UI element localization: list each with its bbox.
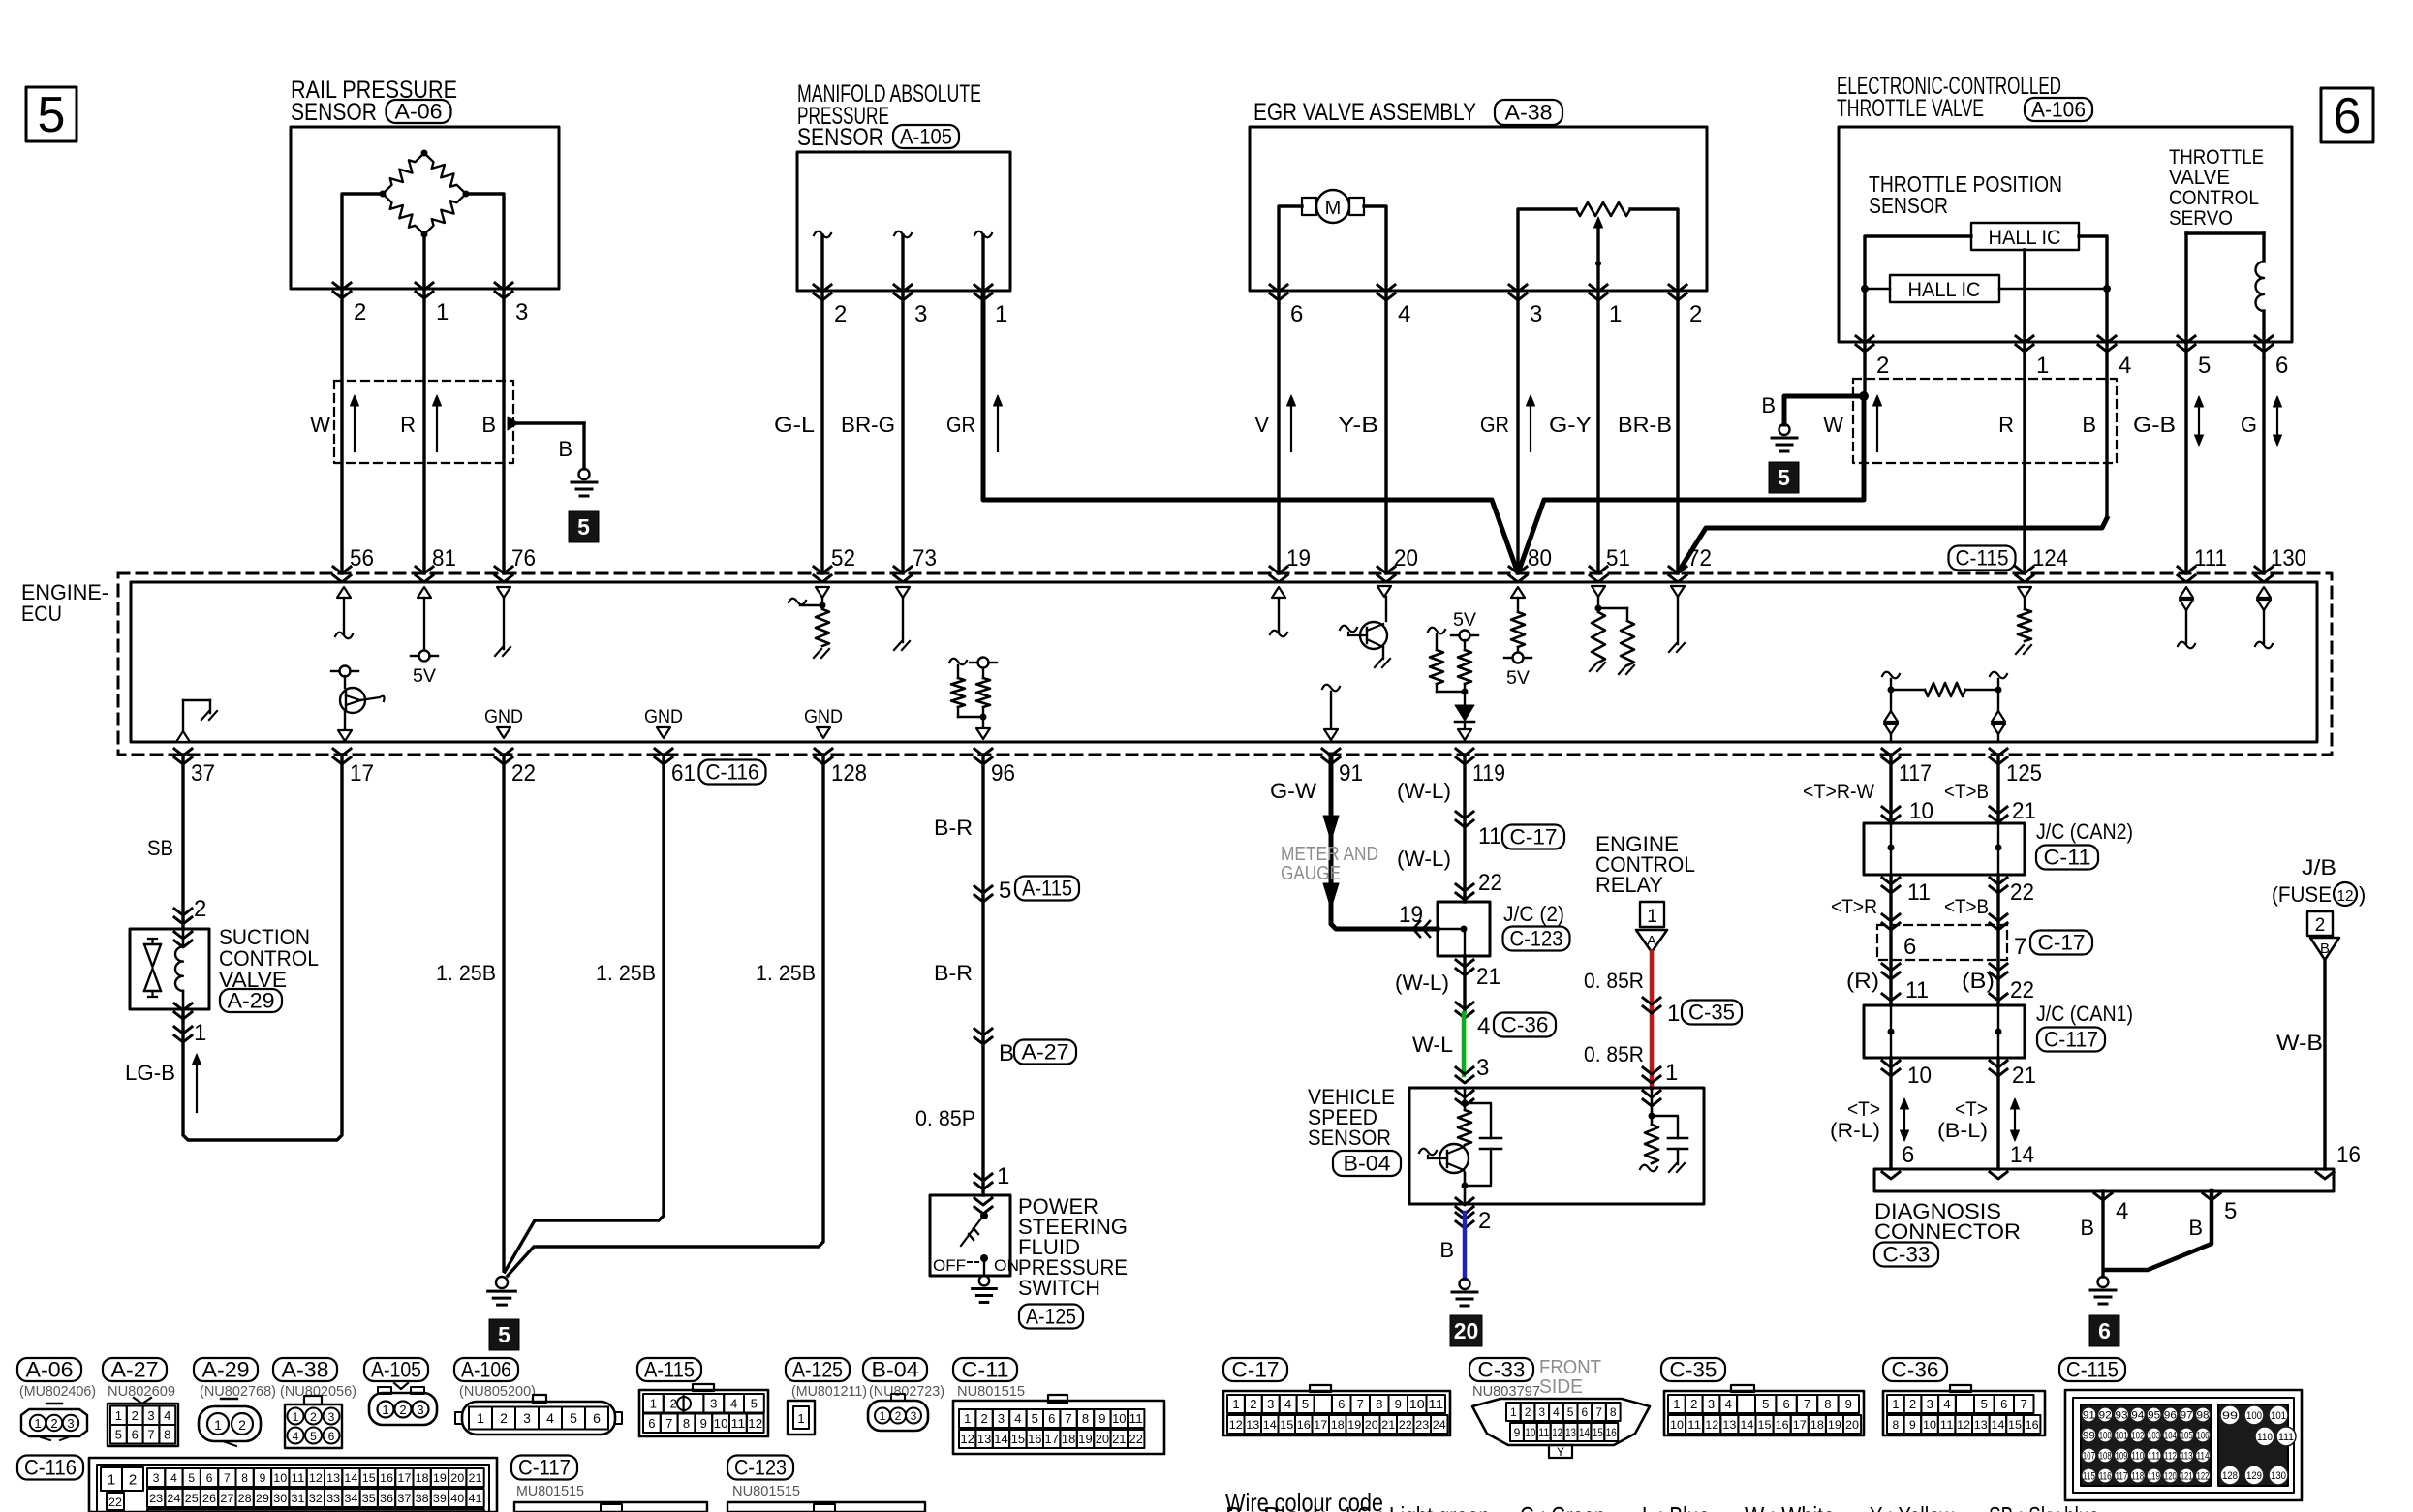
svg-text:15: 15: [1758, 1418, 1772, 1432]
svg-text:11: 11: [1940, 1418, 1954, 1432]
svg-text:125: 125: [2006, 760, 2042, 787]
svg-text:5: 5: [1567, 1405, 1574, 1419]
svg-text:3: 3: [417, 1403, 423, 1417]
intermediate connector dashed box (A-106 harness): [1853, 379, 2117, 463]
svg-text:GR: GR: [1480, 413, 1509, 437]
svg-text:J/B: J/B: [2302, 855, 2336, 879]
svg-text:109: 109: [2116, 1451, 2128, 1463]
svg-text:7: 7: [2014, 934, 2026, 960]
svg-text:81: 81: [432, 545, 456, 571]
svg-text:1: 1: [650, 1396, 657, 1410]
svg-text:5: 5: [577, 514, 590, 540]
ECU top pin crossing at x=2257: [2178, 567, 2195, 573]
ECU top pin crossing at x=2090: [2016, 567, 2033, 573]
svg-text:W-B: W-B: [2276, 1031, 2323, 1055]
svg-text:1: 1: [477, 1410, 484, 1426]
svg-text:(MU801211): (MU801211): [791, 1383, 867, 1400]
ECU top pin crossing at x=438: [416, 567, 433, 573]
ECU top pin crossing at x=353: [333, 567, 351, 573]
svg-text:21: 21: [1476, 964, 1500, 990]
svg-text:20: 20: [1454, 1318, 1479, 1343]
svg-text:95: 95: [2148, 1410, 2160, 1422]
hall IC box 2: [1890, 275, 1999, 302]
wire 91 (G-W) from ECU to meter and J/C(2): [1331, 755, 1438, 929]
svg-text:23: 23: [149, 1492, 163, 1505]
svg-text:121: 121: [2181, 1471, 2193, 1483]
ECU pin 52 pull-down resistor: [816, 587, 829, 598]
pin 3 of A-38: [1509, 285, 1527, 292]
svg-text:B: B: [999, 1040, 1014, 1066]
svg-text:NU803797: NU803797: [1472, 1383, 1540, 1400]
svg-text:1. 25B: 1. 25B: [596, 961, 656, 985]
svg-text:16: 16: [380, 1471, 393, 1485]
wire 0.85R from relay to VSS (red): [1650, 952, 1655, 1088]
svg-text:16: 16: [1297, 1418, 1311, 1432]
svg-text:2: 2: [834, 301, 847, 327]
svg-text:B: B: [1439, 1238, 1454, 1262]
svg-text:2: 2: [980, 1411, 987, 1426]
svg-text:NU802609: NU802609: [108, 1383, 175, 1400]
svg-text:5V: 5V: [1506, 668, 1530, 689]
switch ON contact: [980, 1254, 988, 1262]
connector ref A-29: [220, 989, 282, 1012]
svg-text:C-123: C-123: [734, 1456, 787, 1480]
svg-text:B-R: B-R: [934, 961, 973, 985]
svg-text:1: 1: [797, 1411, 804, 1426]
svg-text:51: 51: [1606, 545, 1630, 571]
VSS internal node top: [1462, 1100, 1469, 1107]
wire 125 <T>B from ECU to J/C(CAN2): [1996, 755, 1999, 823]
node W-wire ground junction: [1859, 391, 1869, 401]
svg-text:MU801515: MU801515: [516, 1483, 584, 1499]
svg-text:SB: SB: [147, 836, 173, 860]
svg-text:7: 7: [1065, 1411, 1071, 1426]
svg-text:20: 20: [450, 1471, 464, 1485]
svg-text:36: 36: [380, 1492, 393, 1505]
svg-text:52: 52: [831, 545, 855, 571]
svg-text:10: 10: [1525, 1426, 1535, 1439]
svg-text:11: 11: [1538, 1426, 1549, 1439]
svg-text:(MU802406): (MU802406): [19, 1383, 96, 1400]
svg-text:1: 1: [1667, 1001, 1680, 1027]
svg-text:Y-B: Y-B: [1338, 413, 1378, 437]
svg-text:2: 2: [2315, 915, 2326, 936]
svg-text:110: 110: [2257, 1432, 2273, 1443]
svg-text:8: 8: [1892, 1418, 1899, 1432]
svg-text:R: R: [1998, 413, 2014, 437]
svg-text:A-115: A-115: [1022, 877, 1072, 901]
svg-text:107: 107: [2083, 1451, 2095, 1463]
svg-text:(W-L): (W-L): [1397, 847, 1451, 871]
svg-text:1: 1: [1892, 1397, 1899, 1411]
page ref 5 (black box, throttle): [1769, 462, 1799, 493]
svg-text:22: 22: [1399, 1418, 1412, 1432]
ECU bottom pin crossing at x=850: [815, 749, 832, 756]
svg-text:A-27: A-27: [1022, 1040, 1069, 1065]
SCV coil: [182, 929, 185, 946]
connector drawing C-11: [953, 1358, 1017, 1381]
junction block J/C(2) box: [1438, 902, 1490, 956]
wire 124 (R) from A-106 pin 1 to ECU: [2023, 342, 2026, 573]
svg-text:8: 8: [683, 1416, 690, 1431]
joint 1 C-35 on red wire: [1643, 998, 1660, 1004]
svg-text:93: 93: [2116, 1410, 2128, 1422]
connector drawing C-17: [1223, 1358, 1287, 1381]
svg-text:122: 122: [2197, 1471, 2210, 1483]
svg-text:16: 16: [1606, 1426, 1617, 1439]
VSS right resistor: [1645, 1125, 1658, 1163]
ECU bottom pin crossing at x=520: [495, 749, 512, 756]
svg-text:(R-L): (R-L): [1830, 1120, 1880, 1142]
connector drawing A-115: [637, 1358, 701, 1381]
svg-text:3: 3: [1476, 1055, 1489, 1081]
svg-text:21: 21: [2012, 1063, 2036, 1089]
svg-text:C-123: C-123: [1510, 927, 1563, 951]
ECU bottom pin crossing at x=2063: [1990, 749, 2007, 756]
svg-text:C-17: C-17: [2038, 931, 2086, 955]
svg-text:(NU805200): (NU805200): [459, 1383, 536, 1400]
svg-text:11: 11: [1428, 1397, 1443, 1411]
power steering fluid pressure switch A-125 box: [930, 1195, 1010, 1276]
wire hall IC1 right lead to pin 4: [2079, 236, 2107, 342]
EGR motor M: [1316, 190, 1349, 223]
svg-text:10: 10: [1112, 1411, 1126, 1426]
ECU top pin crossing at x=1567: [1509, 567, 1527, 573]
svg-text:1: 1: [115, 1408, 122, 1423]
svg-text:2: 2: [1690, 1397, 1697, 1411]
svg-text:22: 22: [1129, 1432, 1143, 1446]
svg-text:A-105: A-105: [900, 125, 952, 149]
svg-text:(NU802768): (NU802768): [200, 1383, 276, 1400]
pin 2 of A-06: [333, 283, 351, 290]
svg-text:11: 11: [731, 1416, 746, 1431]
svg-text:OFF: OFF: [933, 1256, 966, 1275]
ECU pin 130 symbol: [2257, 587, 2271, 598]
svg-text:5: 5: [1302, 1397, 1309, 1411]
svg-text:6: 6: [593, 1410, 601, 1426]
svg-text:129: 129: [2246, 1470, 2262, 1482]
svg-text:117: 117: [2116, 1471, 2128, 1483]
svg-text:106: 106: [2197, 1431, 2210, 1442]
svg-text:SENSOR: SENSOR: [797, 124, 883, 151]
svg-text:SB : Sky blue: SB : Sky blue: [1989, 1501, 2099, 1512]
pin 2 of A-38: [1669, 285, 1686, 292]
svg-text:61: 61: [671, 760, 696, 787]
svg-text:5: 5: [188, 1471, 195, 1485]
EGR wiper arm to pin 1: [1594, 217, 1603, 228]
connector ref A-106: [2025, 98, 2092, 121]
connector drawing C-117: [511, 1456, 577, 1480]
svg-text:10: 10: [1409, 1397, 1425, 1411]
svg-text:8: 8: [1082, 1411, 1089, 1426]
ECU pin 73 symbol: [896, 587, 910, 598]
svg-text:3: 3: [1267, 1397, 1274, 1411]
arrow up on GR wire: [997, 403, 999, 451]
connector drawing A-106: [454, 1358, 518, 1381]
pin 2 of B-04: [1456, 1198, 1473, 1205]
svg-text:B: B: [2082, 413, 2096, 437]
svg-text:5: 5: [1981, 1397, 1988, 1411]
svg-text:15: 15: [1011, 1432, 1025, 1446]
svg-text:(FUSE: (FUSE: [2272, 882, 2332, 907]
svg-text:5: 5: [1762, 1397, 1769, 1411]
intermediate connector dashed box (A-06 harness): [334, 381, 513, 463]
svg-text:28: 28: [238, 1492, 252, 1505]
svg-text:37: 37: [397, 1492, 411, 1505]
svg-text:1: 1: [1609, 301, 1622, 327]
arrow up on GR wire (EGR): [1530, 403, 1531, 451]
svg-text:4: 4: [1725, 1397, 1732, 1411]
svg-text:99: 99: [2222, 1410, 2238, 1422]
svg-text:(NU802056): (NU802056): [280, 1383, 356, 1400]
wire 52 (G-L) from A-105 pin 2 to ECU: [820, 291, 823, 573]
svg-text:0. 85R: 0. 85R: [1584, 1042, 1644, 1066]
svg-text:W-L: W-L: [1412, 1033, 1453, 1057]
svg-text:1: 1: [194, 1020, 206, 1046]
svg-text:5: 5: [2224, 1198, 2237, 1224]
pin 1 of A-105: [974, 285, 992, 292]
svg-text:2: 2: [129, 1471, 137, 1488]
pin 1 of A-38: [1590, 285, 1607, 292]
ECU pin 19 input symbol: [1272, 587, 1285, 598]
svg-text:6: 6: [1782, 1397, 1789, 1411]
svg-text:A-106: A-106: [2031, 98, 2086, 122]
svg-text:92: 92: [2099, 1410, 2112, 1422]
svg-text:C-117: C-117: [518, 1456, 571, 1480]
svg-text:5: 5: [498, 1322, 510, 1347]
svg-text:Y: Y: [1557, 1445, 1564, 1459]
svg-text:12: 12: [1705, 1418, 1718, 1432]
svg-text:2: 2: [500, 1410, 508, 1426]
ECU CAN terminating resistor: [1882, 672, 1900, 679]
svg-text:17: 17: [1314, 1418, 1327, 1432]
svg-text:14: 14: [344, 1471, 357, 1485]
wire 73 (BR-G) from A-105 pin 3 to ECU: [901, 291, 904, 573]
svg-text:20: 20: [1394, 545, 1418, 571]
svg-text:99: 99: [2083, 1431, 2095, 1442]
svg-text:27: 27: [220, 1492, 233, 1505]
svg-text:GR: GR: [946, 413, 975, 437]
EGR valve assembly A-38 box: [1250, 127, 1707, 291]
electronic-controlled throttle valve A-106 box: [1839, 127, 2292, 342]
engine control relay terminal box 1: [1640, 902, 1664, 927]
svg-text:B: B: [1761, 393, 1776, 417]
svg-text:BR-B: BR-B: [1618, 413, 1672, 437]
connector ref C-115 at ECU: [1949, 546, 2016, 571]
svg-text:NU801515: NU801515: [732, 1483, 800, 1499]
arrowheads into J/C(2) pin 19: [1413, 921, 1420, 937]
svg-text:25: 25: [185, 1492, 199, 1505]
EGR position sensor resistor: [1576, 202, 1630, 216]
VSS right branch node: [1649, 1113, 1655, 1120]
wire 72 (BR-B) from A-38 pin 2 to ECU: [1676, 291, 1679, 573]
VSS internal node bottom: [1462, 1183, 1469, 1189]
svg-text:<T>B: <T>B: [1944, 896, 1989, 918]
svg-text:8: 8: [1824, 1397, 1831, 1411]
svg-text:C-33: C-33: [1883, 1243, 1931, 1267]
svg-text:18: 18: [1062, 1432, 1075, 1446]
svg-text:10: 10: [273, 1471, 287, 1485]
svg-text:EGR VALVE ASSEMBLY: EGR VALVE ASSEMBLY: [1253, 99, 1476, 126]
suction control valve A-29 box: [130, 929, 209, 1009]
connector drawing A-125: [786, 1358, 850, 1381]
svg-text:24: 24: [1433, 1418, 1446, 1432]
svg-text:11: 11: [1129, 1411, 1143, 1426]
svg-text:1. 25B: 1. 25B: [436, 961, 496, 985]
svg-text:112: 112: [2164, 1451, 2177, 1463]
svg-text:2: 2: [1876, 353, 1889, 379]
svg-text:A-06: A-06: [395, 100, 443, 124]
ECU pin 76 symbol: [497, 587, 510, 598]
svg-text:0. 85P: 0. 85P: [915, 1106, 975, 1130]
svg-text:4: 4: [1284, 1397, 1291, 1411]
VSS pull-up resistor: [1458, 1110, 1471, 1145]
svg-text:97: 97: [2181, 1410, 2193, 1422]
svg-text:C-35: C-35: [1688, 1001, 1735, 1025]
ECU top pin crossing at x=932: [894, 567, 912, 573]
svg-text:22: 22: [1478, 870, 1502, 896]
svg-text:3: 3: [911, 1409, 917, 1423]
svg-text:C-35: C-35: [1670, 1358, 1717, 1382]
svg-text:115: 115: [2083, 1471, 2095, 1483]
svg-text:<T>R-W: <T>R-W: [1803, 781, 1874, 803]
svg-text:(B): (B): [1962, 969, 1995, 993]
svg-text:J/C (CAN1): J/C (CAN1): [2036, 1002, 2133, 1026]
svg-text:41: 41: [469, 1492, 482, 1505]
svg-text:21: 21: [2012, 798, 2036, 824]
svg-text:NU801515: NU801515: [957, 1383, 1025, 1400]
svg-text:31: 31: [292, 1492, 305, 1505]
svg-text:102: 102: [2131, 1431, 2144, 1442]
wire EGR resistor left to pin 3: [1518, 209, 1576, 291]
svg-text:): ): [2359, 882, 2366, 907]
C-116 third row (clipped at page edge): [147, 1509, 484, 1512]
svg-text:GND: GND: [804, 707, 843, 727]
ECU pin 17 driver transistor: [340, 666, 351, 677]
svg-text:3: 3: [515, 299, 528, 325]
svg-text:104: 104: [2164, 1431, 2177, 1442]
svg-text:21: 21: [1112, 1432, 1126, 1446]
svg-text:14: 14: [1263, 1418, 1277, 1432]
svg-text:2: 2: [132, 1408, 139, 1423]
svg-text:2: 2: [194, 896, 206, 922]
svg-text:G-W: G-W: [1270, 779, 1316, 803]
svg-text:29: 29: [256, 1492, 269, 1505]
svg-text:19: 19: [1399, 902, 1423, 928]
svg-text:6: 6: [1338, 1397, 1345, 1411]
wire 20 (Y-B) from A-38 pin 4 to ECU: [1384, 291, 1387, 573]
svg-text:5: 5: [2198, 353, 2211, 379]
svg-text:22: 22: [511, 760, 536, 787]
wire bridge-left to pin 2: [342, 194, 383, 289]
svg-text:91: 91: [2083, 1410, 2095, 1422]
svg-text:6: 6: [2098, 1318, 2111, 1343]
svg-text:METER AND: METER AND: [1281, 844, 1378, 865]
svg-text:6: 6: [1048, 1411, 1055, 1426]
connector ref A-105: [893, 125, 959, 148]
svg-text:1: 1: [1673, 1397, 1680, 1411]
svg-text:G-Y: G-Y: [1549, 413, 1592, 437]
pressure switch contact: [981, 1213, 988, 1219]
svg-text:1: 1: [1510, 1405, 1517, 1419]
svg-text:76: 76: [511, 545, 536, 571]
svg-text:B: B: [558, 437, 572, 461]
svg-text:21: 21: [1381, 1418, 1395, 1432]
bridge node left: [380, 191, 387, 198]
svg-text:LG-B: LG-B: [125, 1061, 175, 1085]
svg-text:<T>R: <T>R: [1831, 896, 1877, 918]
svg-text:G-L: G-L: [774, 413, 815, 437]
svg-text:3: 3: [1530, 301, 1542, 327]
wire 22 (1.25B) from ECU to ground: [502, 755, 505, 1271]
svg-text:1: 1: [436, 299, 449, 325]
svg-text:6: 6: [1903, 934, 1916, 960]
svg-text:111: 111: [2194, 545, 2227, 571]
svg-text:3: 3: [1927, 1397, 1933, 1411]
svg-text:10: 10: [1670, 1418, 1684, 1432]
svg-text:12: 12: [1957, 1418, 1970, 1432]
joint 5 A-115 on wire 96: [974, 886, 992, 893]
ECU pin 72 symbol: [1671, 586, 1685, 597]
joint B A-27 on wire 96: [974, 1029, 992, 1035]
A-105 internal lead pin 1: [974, 231, 992, 238]
bridge resistor R-c (bottom-left edge): [383, 194, 424, 234]
solid arrow down on wire 91: [1323, 816, 1339, 841]
svg-text:91: 91: [1339, 760, 1363, 787]
svg-text:9: 9: [1514, 1426, 1521, 1439]
svg-text:4: 4: [1398, 301, 1410, 327]
pin 6 of A-106: [2255, 336, 2273, 343]
bridge node bottom: [421, 231, 428, 238]
svg-text:C-115: C-115: [2066, 1358, 2119, 1382]
pin 2 of A-105: [814, 285, 831, 292]
page number box 6: [2321, 88, 2373, 142]
ECU top pin crossing at x=849: [814, 567, 831, 573]
svg-text:3: 3: [710, 1396, 717, 1410]
double arrow on G-B wire: [2198, 404, 2200, 438]
entry chevrons into J/C(CAN1): [1882, 994, 1900, 1001]
svg-text:C-36: C-36: [1501, 1013, 1549, 1037]
svg-text:M: M: [1325, 198, 1342, 219]
svg-text:128: 128: [831, 760, 867, 787]
arrow up on LG-B wire: [196, 1062, 198, 1112]
svg-text:114: 114: [2197, 1451, 2210, 1463]
svg-text:4: 4: [2119, 353, 2131, 379]
svg-text:14: 14: [1740, 1418, 1753, 1432]
svg-text:17: 17: [350, 760, 374, 787]
wire 96 (B-R) from ECU to power steering switch: [981, 755, 984, 1195]
svg-text:110: 110: [2131, 1451, 2144, 1463]
svg-text:13: 13: [1722, 1418, 1736, 1432]
svg-text:19: 19: [1828, 1418, 1841, 1432]
svg-text:(R): (R): [1846, 969, 1879, 993]
wire W-L green segment to VSS: [1462, 1013, 1467, 1075]
connector drawing C-36: [1883, 1358, 1947, 1381]
svg-text:B: B: [2188, 1216, 2203, 1240]
svg-text:3: 3: [328, 1410, 335, 1424]
svg-text:HALL IC: HALL IC: [1989, 227, 2061, 249]
pin 2 of A-106: [1856, 336, 1873, 343]
svg-text:1: 1: [1665, 1060, 1678, 1086]
svg-text:SWITCH: SWITCH: [1018, 1276, 1100, 1300]
pin 6 of A-38: [1270, 285, 1287, 292]
svg-text:73: 73: [913, 545, 937, 571]
svg-text:9: 9: [1845, 1397, 1852, 1411]
svg-text:119: 119: [1472, 760, 1505, 787]
svg-text:22: 22: [2010, 879, 2034, 906]
joint 11 C-17 on wire 119: [1456, 812, 1473, 818]
svg-text:5V: 5V: [1453, 610, 1476, 631]
